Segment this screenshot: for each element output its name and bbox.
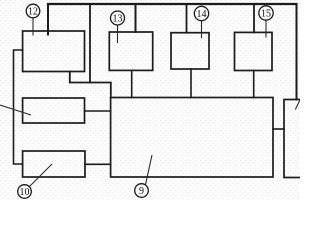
wire left loop linking block 12 block 10 (14, 50, 23, 164)
block 9 (111, 98, 273, 178)
leader from label 10 into block 10 (30, 164, 53, 187)
wire block 12 bottom to block 9 top (70, 72, 111, 98)
label circle 13 (111, 11, 125, 25)
leader from label 14 into block 14 (201, 21, 203, 38)
block 10 (23, 151, 85, 177)
svg-text:9: 9 (139, 186, 144, 197)
wire bus drop to block 13 (135, 4, 137, 32)
label circle 15 (259, 6, 273, 20)
wire bus right end drop to block 11 (296, 4, 298, 100)
leader from label 9 into block 9 (146, 155, 153, 185)
svg-text:13: 13 (113, 14, 123, 25)
svg-text:12: 12 (28, 7, 38, 18)
wire block 13 to block 9 (131, 70, 133, 97)
label circle 10 (18, 185, 32, 199)
wire bus drop to block 12 (47, 4, 49, 35)
block 15 (235, 32, 273, 70)
leader from label 12 into block 12 (32, 18, 34, 36)
leader from label 13 into block 13 (117, 25, 119, 43)
leader from cut-off label into block 11 (295, 100, 300, 110)
wire bus drop to block 14 (186, 4, 188, 33)
leader from cut-off label into block A (0, 105, 31, 115)
wire block 10 to block 9 (85, 163, 111, 165)
wire block 9 to block 11 (273, 128, 284, 130)
leader from label 15 into block 15 (265, 21, 267, 38)
svg-text:15: 15 (261, 9, 271, 20)
label circle 14 (194, 6, 208, 20)
wire bus drop to lower connector (89, 4, 91, 83)
block 14 (171, 33, 209, 69)
wire top bus (48, 3, 297, 5)
wire block 14 to block 9 (190, 69, 192, 98)
block A middle left (23, 98, 85, 123)
svg-text:14: 14 (197, 9, 207, 20)
label circle 12 (26, 4, 40, 18)
block 13 (109, 32, 152, 70)
label circle 9 (135, 184, 149, 198)
wire block A to block 9 (85, 110, 111, 112)
wire block 15 to block 9 (253, 71, 255, 98)
block 11 cut off at right edge (284, 100, 303, 178)
svg-text:10: 10 (20, 187, 30, 198)
block 12 (23, 31, 85, 72)
background halftone (0, 0, 300, 200)
wire bus drop to block 15 (253, 4, 255, 32)
